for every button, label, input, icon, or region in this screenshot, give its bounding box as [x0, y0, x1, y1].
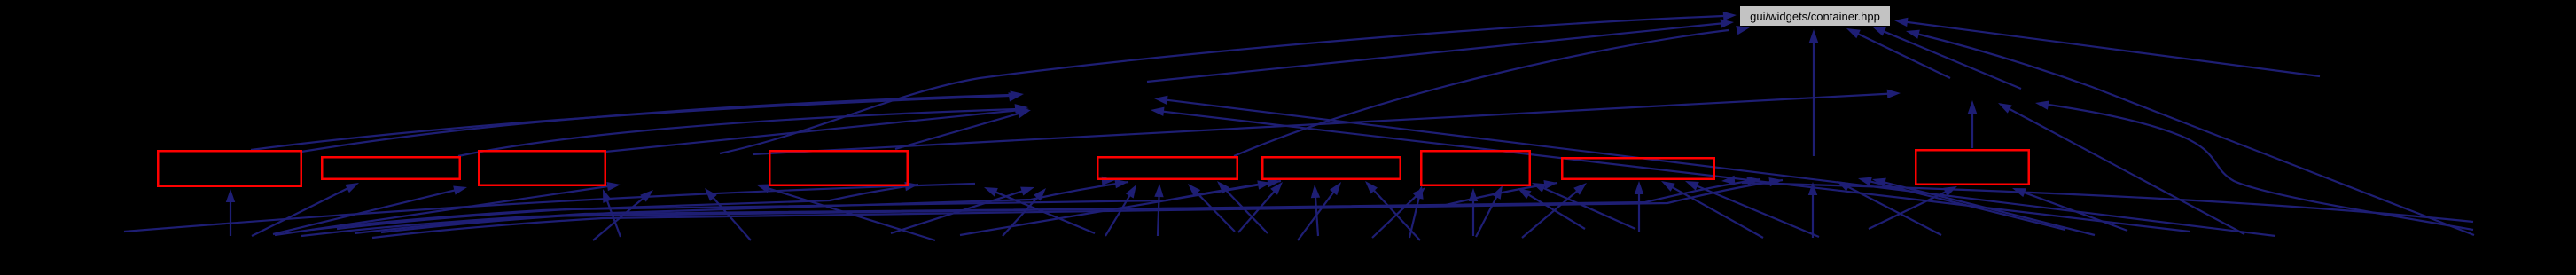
svg-text:gui/widgets/container.hpp: gui/widgets/container.hpp — [1750, 10, 1880, 23]
